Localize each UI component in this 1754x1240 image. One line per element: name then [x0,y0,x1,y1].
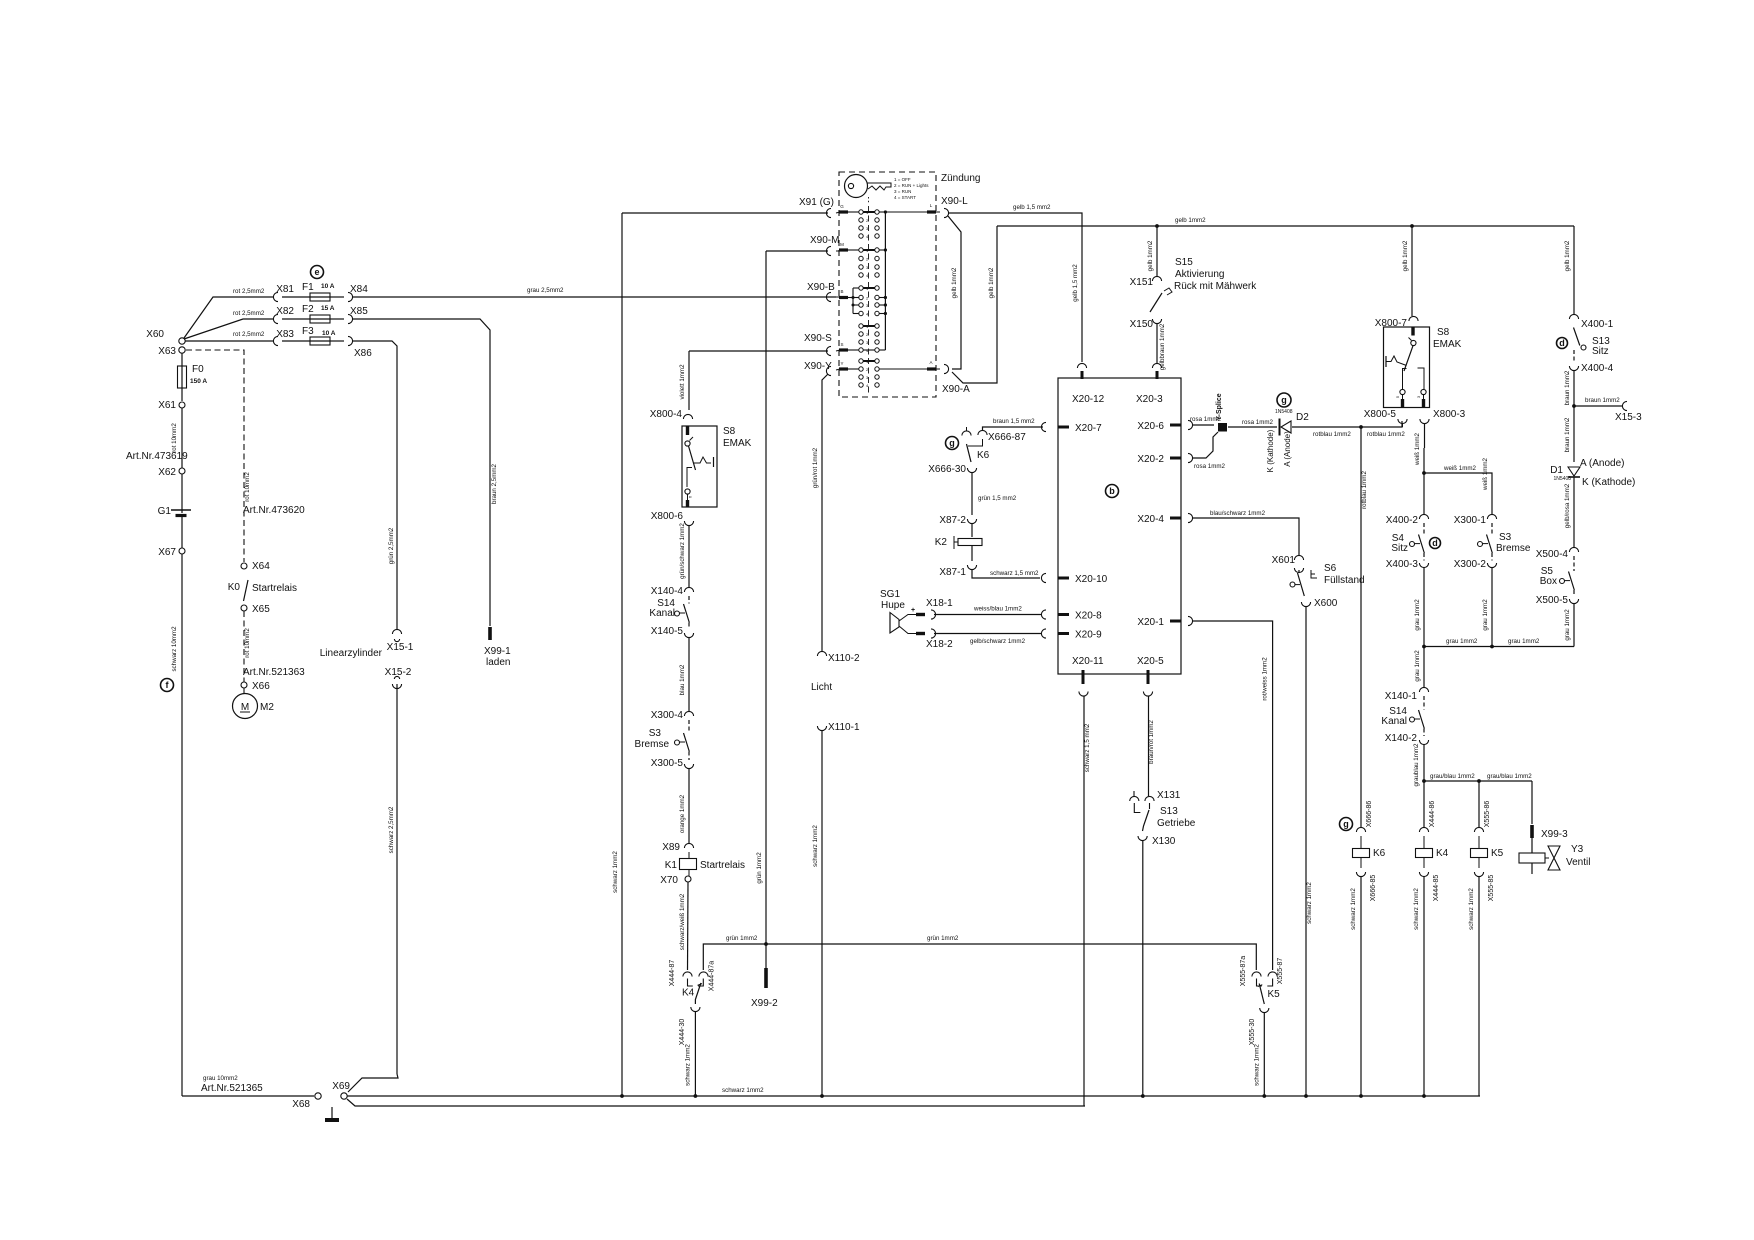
svg-text:X68: X68 [292,1099,310,1110]
svg-text:grau 1mm2: grau 1mm2 [1414,650,1421,682]
wire grau 10mm2 to X68 [182,1095,314,1097]
svg-text:X15-3: X15-3 [1615,412,1642,423]
svg-text:weiß 1mm2: weiß 1mm2 [1482,457,1489,491]
connector X82 [273,314,278,323]
connector X800-5 [1398,419,1407,424]
svg-text:schwarz 1mm2: schwarz 1mm2 [1254,1044,1261,1086]
svg-text:X84: X84 [350,284,368,295]
svg-text:K (Kathode): K (Kathode) [1582,477,1635,488]
svg-text:X90-Y: X90-Y [804,361,832,372]
relay coil K1 Startrelais [688,852,690,858]
svg-text:e: e [314,267,319,277]
wire X15-2 to X69 bend [348,1074,398,1092]
svg-text:X20-4: X20-4 [1137,514,1164,525]
node X60 [179,338,185,344]
connector X555-30 [1260,1008,1269,1013]
svg-text:X140-1: X140-1 [1385,691,1418,702]
wire gelb X90-A up to top bus [952,226,997,383]
svg-text:grau 1mm2: grau 1mm2 [1564,609,1571,641]
svg-text:X64: X64 [252,561,270,572]
svg-text:schwarz 1,5 mm2: schwarz 1,5 mm2 [1084,723,1091,772]
svg-text:gelb 1mm2: gelb 1mm2 [1175,217,1206,224]
ground bus lower 10mm2 [347,1099,1085,1106]
S8 EMAK box right [1384,327,1430,408]
connector X500-5 [1569,599,1578,604]
svg-text:gelb 1mm2: gelb 1mm2 [988,267,995,298]
connector X300-4 [684,711,693,716]
svg-text:schwarz 1mm2: schwarz 1mm2 [612,851,619,893]
connector X400-1 [1569,314,1578,319]
dashed wire X65 to X66 [243,611,245,682]
svg-text:grau 1mm2: grau 1mm2 [1508,638,1540,645]
svg-text:K6: K6 [977,450,990,461]
svg-text:S13: S13 [1160,806,1178,817]
svg-text:schwarz 1mm2: schwarz 1mm2 [1350,888,1357,930]
svg-text:g: g [949,438,955,448]
wire graublau X140-2 to bus [1423,744,1425,781]
svg-text:M2: M2 [260,702,274,713]
svg-text:X140-4: X140-4 [651,586,684,597]
connector X89 [684,843,693,848]
svg-text:rosa 1mm2: rosa 1mm2 [1194,463,1226,470]
svg-text:K2: K2 [935,537,948,548]
svg-text:X110-2: X110-2 [828,653,860,664]
svg-text:Rück mit Mähwerk: Rück mit Mähwerk [1174,281,1257,292]
svg-text:gelb 1mm2: gelb 1mm2 [1564,240,1571,271]
svg-text:X81: X81 [276,284,294,295]
svg-text:X83: X83 [276,329,294,340]
svg-text:schwarz 1mm2: schwarz 1mm2 [1413,888,1420,930]
svg-text:G1: G1 [158,506,172,517]
connector X300-2 [1487,563,1496,568]
relay contact K4 [683,972,692,977]
svg-text:laden: laden [486,657,510,668]
connector X83 [273,336,278,345]
svg-text:grün 1,5 mm2: grün 1,5 mm2 [978,495,1017,502]
svg-text:Art.Nr.521365: Art.Nr.521365 [201,1083,263,1094]
svg-text:grau 1mm2: grau 1mm2 [1482,599,1489,631]
connector X68 [315,1093,321,1099]
connector X150 [1152,319,1161,324]
connector X500-4 [1569,547,1578,552]
svg-text:gelb 1mm2: gelb 1mm2 [1402,240,1409,271]
svg-text:X20-10: X20-10 [1075,574,1108,585]
svg-text:X300-4: X300-4 [651,710,684,721]
svg-text:X99-1: X99-1 [484,646,511,657]
connector X69 [341,1093,347,1099]
svg-text:Art.Nr.521363: Art.Nr.521363 [243,667,305,678]
svg-text:X90-B: X90-B [807,282,835,293]
circled g above D2 [1277,393,1291,407]
svg-text:schwarz 1,5 mm2: schwarz 1,5 mm2 [990,570,1039,577]
wire braun X400-4 down [1573,370,1575,406]
svg-text:gelb 1mm2: gelb 1mm2 [1147,240,1154,271]
svg-text:Startrelais: Startrelais [700,860,745,871]
svg-text:Zündung: Zündung [941,173,980,184]
svg-text:K4: K4 [682,988,695,999]
connector X140-4 [684,587,693,592]
wire schwarz 10mm2 X67 to bottom [181,554,183,1096]
wire rot 10mm2 X61 to X62 [181,408,183,468]
svg-text:rot 10mm2: rot 10mm2 [244,472,251,502]
relay coil K4 [1423,836,1425,848]
svg-text:+: + [911,607,915,614]
svg-text:Getriebe: Getriebe [1157,818,1196,829]
svg-text:X90-A: X90-A [942,384,970,395]
wire weiss X800-3 down [1424,423,1426,448]
svg-text:grün 1mm2: grün 1mm2 [756,852,763,884]
relay contact K6 [968,439,983,446]
wire X60 to X82 [184,319,273,339]
wire rotblau down to X666-86 [1360,427,1362,828]
svg-text:gelb 1mm2: gelb 1mm2 [951,267,958,298]
relay coil K2 [971,523,973,537]
svg-text:X82: X82 [276,306,294,317]
svg-text:X110-1: X110-1 [828,722,860,733]
svg-text:X400-4: X400-4 [1581,363,1614,374]
wire rot/weiss X20-1 to K5 contact [1188,616,1193,625]
wire schwarz K4 to bus [1423,876,1425,1096]
svg-text:X20-6: X20-6 [1137,421,1164,432]
svg-text:X666-85: X666-85 [1370,875,1377,902]
svg-text:schwarz/weiß 1mm2: schwarz/weiß 1mm2 [679,893,686,950]
connector above X20-12 [1077,363,1086,368]
svg-text:grau/blau 1mm2: grau/blau 1mm2 [1430,773,1475,780]
svg-text:X150: X150 [1130,319,1154,330]
svg-text:violett 1mm2: violett 1mm2 [679,364,686,400]
svg-text:X89: X89 [662,842,680,853]
connector X140-5 [684,633,693,638]
svg-text:rot 2,5mm2: rot 2,5mm2 [233,310,265,317]
svg-text:grau 1mm2: grau 1mm2 [1414,599,1421,631]
wire weiss/blau to X20-8 [934,614,1041,616]
connector X61 [181,388,183,401]
svg-text:schwarz 2,5mm2: schwarz 2,5mm2 [388,806,395,853]
svg-text:g: g [1281,395,1287,405]
connector X70 [688,870,690,877]
connector X151 [1152,276,1161,281]
svg-text:S6: S6 [1324,563,1337,574]
wire braun 2,5mm2 X85 to X99-1 [352,319,490,626]
pin X20-9 [1058,632,1069,635]
S8 EMAK box left [682,426,717,507]
svg-text:S8: S8 [1437,327,1450,338]
wire schwarz/weiss X70 to K4 contact [687,882,690,970]
wire schwarz 1,5mm2 X87-1 to X20-10 [972,569,1040,578]
svg-text:schwarz 1mm2: schwarz 1mm2 [1468,888,1475,930]
junction braun X15-3 branch [1572,404,1576,408]
svg-text:F2: F2 [302,304,314,315]
wire grau X300-2 to grau bus [1491,567,1493,647]
wire gelb 1,5mm2 X90-L to X20-12 [948,213,1082,362]
svg-text:X99-3: X99-3 [1541,829,1568,840]
top bus gelb 1mm2 [997,225,1574,227]
key symbol [845,175,868,198]
wire rotblau D2 to X800-5 [1292,421,1402,427]
connector X130 [1138,836,1147,841]
svg-text:X20-2: X20-2 [1137,454,1164,465]
connector X66 [241,682,247,688]
connector block b [1058,378,1181,674]
svg-text:1 = OFF: 1 = OFF [894,177,911,182]
svg-text:S: S [840,342,843,347]
svg-text:10 A: 10 A [322,330,336,337]
wire gruen 1mm2 bus [703,944,1256,970]
connector X600 [1301,602,1310,607]
wire grau 2,5mm2 X84 to X90-B [352,296,836,298]
svg-text:S3: S3 [649,728,662,739]
svg-text:X666-86: X666-86 [1366,801,1373,828]
svg-text:X600: X600 [1314,598,1338,609]
svg-text:X62: X62 [158,467,176,478]
wire graublau K5 column [1478,781,1480,828]
circled g X666-86 [1340,818,1353,831]
svg-text:Art.Nr.473619: Art.Nr.473619 [126,451,188,462]
svg-text:F0: F0 [192,364,204,375]
ignition internal bus [884,212,886,350]
svg-text:M: M [241,702,249,713]
wire weiss to S3 column [1424,473,1492,515]
svg-text:X800-6: X800-6 [651,511,684,522]
connector X87-1 [971,546,973,562]
connector X800-6 [684,521,693,526]
svg-text:F3: F3 [302,326,314,337]
connector X300-1 [1487,514,1496,519]
pin X20-2 [1170,457,1181,460]
svg-text:X555-30: X555-30 [1249,1019,1256,1046]
svg-text:X99-2: X99-2 [751,998,778,1009]
svg-text:X20-5: X20-5 [1137,656,1164,667]
svg-text:Y3: Y3 [1571,844,1584,855]
wire X91 to schwarz down-left [622,212,828,214]
node X63 [179,347,185,353]
svg-text:Box: Box [1540,576,1557,587]
connector X800-4 [683,414,692,419]
svg-text:X20-7: X20-7 [1075,423,1102,434]
svg-text:K5: K5 [1268,989,1281,1000]
svg-text:X300-2: X300-2 [1454,559,1487,570]
svg-text:X69: X69 [332,1081,350,1092]
ignition A terminal [879,368,927,370]
svg-text:Kanal: Kanal [1381,716,1407,727]
svg-text:Y: Y [840,361,843,366]
ignition L terminal [885,211,927,213]
svg-text:Kanal: Kanal [649,608,675,619]
svg-text:M: M [840,242,844,247]
switch S6 Fuellstand [1311,570,1317,578]
wire grau X400-3 to grau bus [1423,567,1425,647]
svg-text:S3: S3 [1499,532,1512,543]
connector X110-1 [817,726,826,731]
svg-text:A (Anode): A (Anode) [1580,458,1624,469]
connector X800-3 [1420,419,1429,424]
svg-text:graublau 1mm2: graublau 1mm2 [1413,743,1420,787]
svg-text:rot 10mm2: rot 10mm2 [171,423,178,453]
terminal X99-1 laden [488,627,492,640]
connector X444-85 [1423,858,1425,868]
svg-text:X87-1: X87-1 [939,567,966,578]
svg-text:X20-12: X20-12 [1072,394,1105,405]
svg-text:10 A: 10 A [321,283,335,290]
connector X555-86 [1474,827,1483,832]
svg-text:Sitz: Sitz [1391,543,1408,554]
junction rotblau K6 coil column [1359,425,1363,429]
wire schwarz K5 to bus [1478,876,1480,1096]
wire blau X140-5 to X300-4 [688,637,690,712]
relay contact K5 [1252,972,1261,977]
wire X60 to X81 [184,297,273,338]
svg-text:D1: D1 [1550,465,1563,476]
connector X140-2 [1419,740,1428,745]
svg-text:Sitz: Sitz [1592,346,1609,357]
motor M2 [243,688,245,693]
svg-text:weiß 1mm2: weiß 1mm2 [1443,465,1477,472]
svg-text:grau 1mm2: grau 1mm2 [1446,638,1478,645]
junction weiss [1422,471,1426,475]
wire gelb down to X151 [1156,226,1158,277]
svg-text:braun 1,5 mm2: braun 1,5 mm2 [993,418,1035,425]
connector X666-86 [1356,827,1365,832]
fuse F1 10A [282,296,310,298]
ignition contacts G [839,210,848,213]
connector X110-2 [817,651,826,656]
connector X666-87 [978,430,987,435]
svg-text:gelb/rosa 1mm2: gelb/rosa 1mm2 [1564,483,1571,528]
connector X65 [241,605,247,611]
svg-text:blau/schwarz 1mm2: blau/schwarz 1mm2 [1210,510,1266,517]
svg-text:X800-4: X800-4 [650,409,683,420]
svg-text:X67: X67 [158,547,176,558]
svg-text:Ventil: Ventil [1566,857,1590,868]
svg-text:K4: K4 [1436,848,1449,859]
svg-text:X20-8: X20-8 [1075,611,1102,622]
connector X800-7 [1409,316,1418,321]
connector X20-6 rosa [1188,420,1193,429]
svg-text:3 = RUN: 3 = RUN [894,189,911,194]
svg-text:X18-2: X18-2 [926,639,953,650]
wire X60 to X83 [185,340,273,342]
svg-text:X666-87: X666-87 [988,432,1026,443]
svg-text:A: A [929,360,932,365]
svg-text:X555-87: X555-87 [1277,958,1284,985]
svg-text:Startrelais: Startrelais [252,583,297,594]
svg-text:schwarz 1mm2: schwarz 1mm2 [685,1044,692,1086]
svg-text:X140-2: X140-2 [1385,733,1418,744]
graublau bus [1424,780,1532,782]
svg-text:EMAK: EMAK [723,438,752,449]
svg-text:g: g [1343,819,1349,829]
wire graublau to X99-3 [1531,781,1533,824]
connector X84 [330,296,344,298]
wire braun down to D1 [1573,406,1575,462]
wire braun/rot X20-5 to X131 [1148,696,1150,796]
wire schwarz 1,5mm2 X20-11 to lower bus [1083,696,1085,1106]
svg-text:X18-1: X18-1 [926,598,953,609]
svg-text:rotblau 1mm2: rotblau 1mm2 [1361,471,1368,509]
svg-text:X20-1: X20-1 [1137,617,1164,628]
svg-text:braun 1mm2: braun 1mm2 [1564,370,1571,405]
wire gelb top bus to X400-1 [1573,226,1575,315]
svg-text:X800-3: X800-3 [1433,409,1466,420]
wire braun to X15-3 [1574,405,1622,407]
svg-text:X90-M: X90-M [810,235,839,246]
svg-text:15 A: 15 A [321,305,335,312]
svg-text:X300-1: X300-1 [1454,515,1487,526]
svg-text:X130: X130 [1152,836,1176,847]
wire gruen/schwarz X800-6 to X140-4 [688,525,690,588]
wire gelb/rosa D1 to X500-4 [1573,477,1575,548]
wire gelb top bus to X800-7 [1410,224,1414,228]
svg-text:blau 1mm2: blau 1mm2 [679,664,686,695]
svg-text:Art.Nr.473620: Art.Nr.473620 [243,505,305,516]
svg-text:rot 10mm2: rot 10mm2 [244,628,251,658]
connector X444-30 [691,1007,700,1012]
svg-text:X86: X86 [354,348,372,359]
svg-text:X444-85: X444-85 [1433,875,1440,902]
connector X18-2 [899,626,916,634]
connector X131 [1133,791,1135,797]
connector X20-2 rosa [1188,453,1193,462]
connector X444-86 [1419,827,1428,832]
valve Y3 Ventil [1531,838,1533,853]
svg-text:grau/blau 1mm2: grau/blau 1mm2 [1487,773,1532,780]
svg-text:rosa 1mm2: rosa 1mm2 [1242,419,1274,426]
pin X20-6 [1170,424,1181,427]
svg-text:X20-9: X20-9 [1075,630,1102,641]
pin X20-7 [1058,426,1069,429]
svg-text:Bremse: Bremse [1496,543,1531,554]
fuse F0 150A [181,353,183,367]
Y-splice [1218,423,1227,432]
svg-text:G: G [840,204,844,209]
svg-text:150 A: 150 A [190,378,207,385]
svg-text:X400-2: X400-2 [1386,515,1419,526]
svg-text:F1: F1 [302,282,314,293]
svg-text:X131: X131 [1157,790,1181,801]
svg-text:weiss/blau 1mm2: weiss/blau 1mm2 [973,606,1022,613]
svg-text:X85: X85 [350,306,368,317]
svg-text:X90-L: X90-L [941,196,968,207]
svg-text:K5: K5 [1491,848,1504,859]
svg-text:b: b [1109,486,1115,496]
svg-text:braun 1mm2: braun 1mm2 [1585,397,1620,404]
pin X20-5 [1147,670,1150,684]
wire gruen/rot X90-Y down to X110-2 [822,374,828,652]
pin X20-4 [1170,517,1181,520]
svg-text:X444-87a: X444-87a [709,961,716,991]
svg-text:rot/weiss 1mm2: rot/weiss 1mm2 [1262,657,1269,701]
wire schwarz X444-30 to bus [694,1012,696,1097]
svg-text:rot 2,5mm2: rot 2,5mm2 [233,331,265,338]
svg-text:rotblau 1mm2: rotblau 1mm2 [1313,431,1351,438]
svg-text:X140-5: X140-5 [651,626,684,637]
svg-text:X70: X70 [660,875,678,886]
wire gruen X90-M left and down to X99-2 [766,250,828,252]
svg-text:weiß 1mm2: weiß 1mm2 [1414,432,1421,466]
svg-text:X444-30: X444-30 [679,1019,686,1046]
switch S15 [1150,293,1162,312]
connector X400-2 [1419,514,1428,519]
wire gelbbraun X150 to X20-3 [1156,323,1158,364]
svg-text:X61: X61 [158,400,176,411]
svg-text:gelbbraun 1mm2: gelbbraun 1mm2 [1159,323,1166,370]
svg-text:rot 2,5mm2: rot 2,5mm2 [233,288,265,295]
svg-text:orange 1mm2: orange 1mm2 [679,794,686,833]
connector above X20-3 [1152,363,1161,368]
fuse F2 15A [282,318,310,320]
svg-text:X300-5: X300-5 [651,758,684,769]
svg-text:grün/schwarz 1mm2: grün/schwarz 1mm2 [679,523,686,579]
